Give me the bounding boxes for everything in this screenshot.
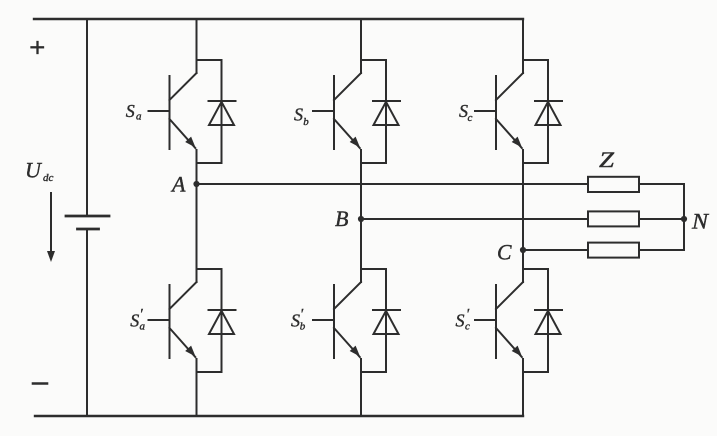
svg-text:Z: Z [599, 147, 615, 172]
label + (positive terminal) [32, 42, 44, 53]
label S_a' [130, 307, 145, 333]
diode Da1 (antiparallel with S_a Qa1) [209, 60, 236, 163]
label S_c [459, 101, 473, 124]
wire leg A: mid rail to output node [196, 150, 198, 184]
transistor S_b' Qb2 (IGBT) [313, 282, 361, 358]
wire leg C: bottom rail to DC- bus [522, 359, 524, 416]
transistor S_a Qa1 (IGBT) [149, 73, 197, 149]
resistor Z (phase A load) [588, 177, 639, 192]
svg-text:A: A [170, 172, 186, 197]
svg-text:b: b [303, 116, 309, 128]
wire leg B: bottom rail to DC- bus [360, 359, 362, 416]
resistor Z (phase C load) [588, 243, 639, 258]
wire leg B: rail from node down to lower switch [360, 219, 362, 282]
label N [691, 209, 710, 234]
wire leg B: top rail from DC+ bus [360, 19, 362, 73]
wire left DC rail lower segment [86, 229, 88, 416]
resistor Z (phase B load) [588, 211, 639, 226]
label S_b' [291, 307, 306, 333]
diode Db1 (antiparallel with S_b Qb1) [373, 60, 400, 163]
transistor S_c' Qc2 (IGBT) [475, 282, 523, 358]
svg-text:dc: dc [43, 172, 54, 184]
svg-text:b: b [300, 321, 306, 333]
wire phase B output (node B to load) [361, 218, 588, 220]
svg-text:C: C [497, 240, 512, 265]
wire phase C output (node C to load) [523, 249, 588, 251]
node N (neutral point) [681, 216, 687, 222]
wire emitter link of S_b Qb1 (rail to diode bottom) [361, 162, 386, 164]
wire emitter link of S_c' Qc2 (rail to diode bottom) [523, 371, 548, 373]
diode Da2 (antiparallel with S_a' Qa2) [209, 269, 236, 372]
svg-text:B: B [335, 206, 348, 231]
svg-text:S: S [294, 105, 303, 125]
wire left DC rail upper segment [86, 19, 88, 216]
wire top DC bus [34, 18, 523, 20]
label B [335, 206, 348, 231]
label C [497, 240, 512, 265]
wire leg C: top rail from DC+ bus [522, 19, 524, 73]
wire emitter link of S_b' Qb2 (rail to diode bottom) [361, 371, 386, 373]
label S_c' [456, 307, 471, 333]
svg-text:a: a [140, 321, 146, 333]
transistor S_a' Qa2 (IGBT) [149, 282, 197, 358]
label S_a [126, 101, 142, 123]
wire leg C: mid rail to output node [522, 150, 524, 250]
wire leg C: rail from node down to lower switch [522, 250, 524, 282]
wire leg B: mid rail to output node [360, 150, 362, 219]
wire emitter link of S_c Qc1 (rail to diode bottom) [523, 162, 548, 164]
wire collector link of S_b Qb1 (rail to diode top) [361, 59, 386, 61]
diode Dc1 (antiparallel with S_c Qc1) [535, 60, 562, 163]
label S_b [294, 105, 309, 128]
svg-text:S: S [291, 311, 300, 331]
svg-text:a: a [136, 111, 142, 123]
svg-text:c: c [468, 112, 473, 124]
wire collector link of S_b' Qb2 (rail to diode top) [361, 268, 386, 270]
label U_dc [25, 158, 54, 185]
diode Dc2 (antiparallel with S_c' Qc2) [535, 269, 562, 372]
transistor S_b Qb1 (IGBT) [313, 73, 361, 149]
wire phase A load to neutral riser [639, 183, 684, 185]
wire leg A: bottom rail to DC- bus [196, 359, 198, 416]
svg-text:S: S [126, 101, 135, 121]
wire leg A: top rail from DC+ bus [196, 19, 198, 73]
U_dc direction arrow [47, 193, 55, 262]
svg-text:S: S [130, 311, 139, 331]
svg-text:U: U [25, 158, 43, 183]
wire emitter link of S_a Qa1 (rail to diode bottom) [197, 162, 222, 164]
wire collector link of S_c Qc1 (rail to diode top) [523, 59, 548, 61]
svg-text:N: N [691, 209, 710, 234]
wire phase B load to node N [639, 218, 684, 220]
wire collector link of S_c' Qc2 (rail to diode top) [523, 268, 548, 270]
svg-text:c: c [465, 321, 470, 333]
wire leg A: rail from node down to lower switch [196, 184, 198, 282]
wire collector link of S_a' Qa2 (rail to diode top) [197, 268, 222, 270]
transistor S_c Qc1 (IGBT) [475, 73, 523, 149]
wire collector link of S_a Qa1 (rail to diode top) [197, 59, 222, 61]
wire phase C load to neutral riser [639, 249, 684, 251]
battery DC source plates [66, 216, 109, 229]
label Z [599, 147, 615, 172]
label - (negative terminal) [33, 382, 47, 385]
wire neutral riser (right vertical) [683, 184, 685, 250]
wire emitter link of S_a' Qa2 (rail to diode bottom) [197, 371, 222, 373]
label A [170, 172, 186, 197]
wire bottom DC bus [35, 415, 523, 417]
node A (phase output junction) [193, 181, 199, 187]
diode Db2 (antiparallel with S_b' Qb2) [373, 269, 400, 372]
wire phase A output (node A to load) [197, 183, 589, 185]
node B (phase output junction) [358, 216, 364, 222]
node C (phase output junction) [520, 247, 526, 253]
svg-text:S: S [456, 311, 465, 331]
